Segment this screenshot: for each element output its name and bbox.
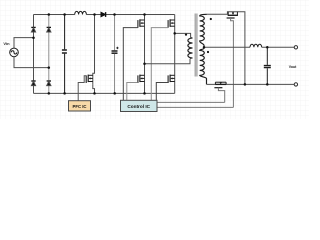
diode D4 <box>47 81 51 86</box>
wire Vin bottom <box>14 57 49 68</box>
wire Q2 gate <box>151 28 168 101</box>
inductor L2 <box>250 44 262 47</box>
transformer T1 secondary top winding <box>200 14 207 47</box>
transistor Q3 <box>138 75 145 83</box>
diode D1 <box>31 27 35 32</box>
node Q3 source <box>143 92 146 95</box>
wire top rail right of inductor <box>86 14 174 16</box>
transformer T1 secondary bottom winding <box>200 47 207 84</box>
wire bottom rail <box>34 92 175 94</box>
capacitor C3 output <box>264 47 271 84</box>
node bridge leg2 bottom <box>48 92 51 95</box>
wire right leg to primary top <box>175 33 193 38</box>
wire feedback line 1 <box>157 101 225 103</box>
node Vin neutral <box>48 66 51 69</box>
node Vin line <box>32 36 35 39</box>
wire right bridge leg <box>48 15 50 94</box>
transistor M5 sync rect top <box>227 12 238 18</box>
transistor Q1 <box>138 19 145 27</box>
wire secondary bottom rail <box>207 83 295 85</box>
node Q1 drain <box>143 13 146 16</box>
capacitor C1 <box>62 15 67 94</box>
terminal Vout+ <box>294 46 297 49</box>
node M5 return <box>244 83 247 86</box>
transistor Q4 <box>168 75 175 83</box>
wire Q4 gate <box>156 83 168 101</box>
node C3 top <box>266 46 269 49</box>
wire left bridge leg <box>33 15 35 94</box>
inductor L1 <box>75 11 87 14</box>
transformer T1 primary winding <box>188 38 193 58</box>
diode D5 boost <box>101 12 106 17</box>
node C2 bottom <box>113 92 116 95</box>
diode D2 <box>47 27 51 32</box>
node left leg midpoint <box>143 62 146 64</box>
diode D3 <box>31 81 35 86</box>
svg-text:Control IC: Control IC <box>127 104 150 109</box>
node Q5 source <box>93 92 96 95</box>
wire Q5 gate to PFC IC <box>78 76 86 101</box>
wire M5 gate to control <box>231 18 234 107</box>
node center tap <box>203 46 206 49</box>
node right leg midpoint <box>173 32 176 35</box>
transistor Q2 <box>168 19 175 27</box>
wire center tap output <box>204 46 250 48</box>
wire top rail <box>34 14 75 16</box>
wire M6 gate to control <box>218 88 224 103</box>
transistor Q5 PFC FET <box>93 15 95 85</box>
wire Q3 gate <box>127 83 138 101</box>
node C2 top <box>113 13 116 16</box>
wire secondary top to bus <box>207 12 245 85</box>
wire feedback line 2 <box>157 106 233 108</box>
phase dot secondary bottom <box>207 51 209 53</box>
source V1 <box>10 48 19 57</box>
wire left leg to primary bottom <box>145 58 193 64</box>
wire Q1 gate <box>123 28 138 101</box>
svg-text:Vin: Vin <box>3 41 10 46</box>
wire inductor to terminal <box>262 46 295 48</box>
box PFC IC <box>69 101 91 111</box>
box Control IC <box>121 100 158 111</box>
svg-text:Vout: Vout <box>289 65 297 69</box>
node C1 bottom <box>63 92 66 95</box>
wire full-bridge right leg <box>174 15 176 94</box>
node bridge leg2 top <box>48 13 51 16</box>
phase dot secondary top <box>210 18 212 20</box>
phase dot primary <box>185 34 187 36</box>
capacitor C2 bulk <box>112 15 119 94</box>
terminal Vout- <box>294 83 297 86</box>
transistor M6 sync rect bottom <box>214 82 226 88</box>
node Q5 drain <box>93 13 96 16</box>
wire full-bridge left leg <box>144 15 146 94</box>
wire Vin top <box>14 38 34 49</box>
transformer T1 core <box>195 14 197 77</box>
node C1 top <box>63 13 66 16</box>
svg-text:PFC IC: PFC IC <box>72 104 86 109</box>
node C3 bottom <box>266 83 269 86</box>
